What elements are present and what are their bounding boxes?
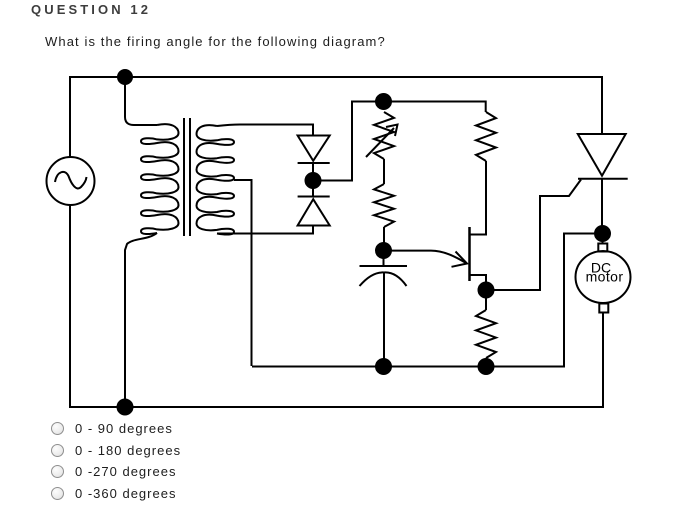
junction dot — [376, 243, 391, 258]
diode D1 — [298, 136, 330, 174]
junction dot — [479, 359, 494, 374]
junction dot — [376, 359, 391, 374]
wire — [383, 227, 385, 244]
junction dot — [479, 283, 494, 298]
dc motor M1 — [576, 240, 631, 313]
wire — [485, 297, 487, 310]
wire — [320, 102, 486, 181]
wire — [70, 77, 602, 157]
wire — [383, 159, 385, 184]
diode D2 — [298, 188, 330, 226]
wire — [125, 77, 157, 125]
transistor Q1 — [391, 161, 486, 283]
capacitor C1 — [360, 258, 408, 366]
resistor R3 — [374, 184, 394, 227]
resistor VR1 — [366, 112, 398, 159]
junction dot — [118, 400, 133, 415]
thyristor SCR1 — [578, 134, 628, 179]
transformer core — [184, 118, 190, 236]
ac source V1 — [47, 157, 95, 205]
junction dot — [306, 173, 321, 188]
resistor R2 — [476, 310, 496, 358]
junction dot — [376, 94, 391, 109]
svg-text:motor: motor — [586, 269, 624, 285]
wire — [252, 234, 594, 367]
wire — [234, 180, 252, 366]
wire — [493, 180, 581, 291]
wire — [125, 233, 157, 407]
transformer T1 primary — [141, 124, 179, 234]
transformer T1 secondary — [197, 125, 235, 234]
wire — [70, 205, 603, 407]
junction dot — [118, 70, 132, 84]
resistor R1 — [476, 112, 496, 161]
junction dot — [595, 226, 610, 241]
wire — [601, 179, 603, 226]
wire — [217, 125, 313, 136]
wire — [485, 358, 487, 366]
wire — [217, 225, 313, 234]
